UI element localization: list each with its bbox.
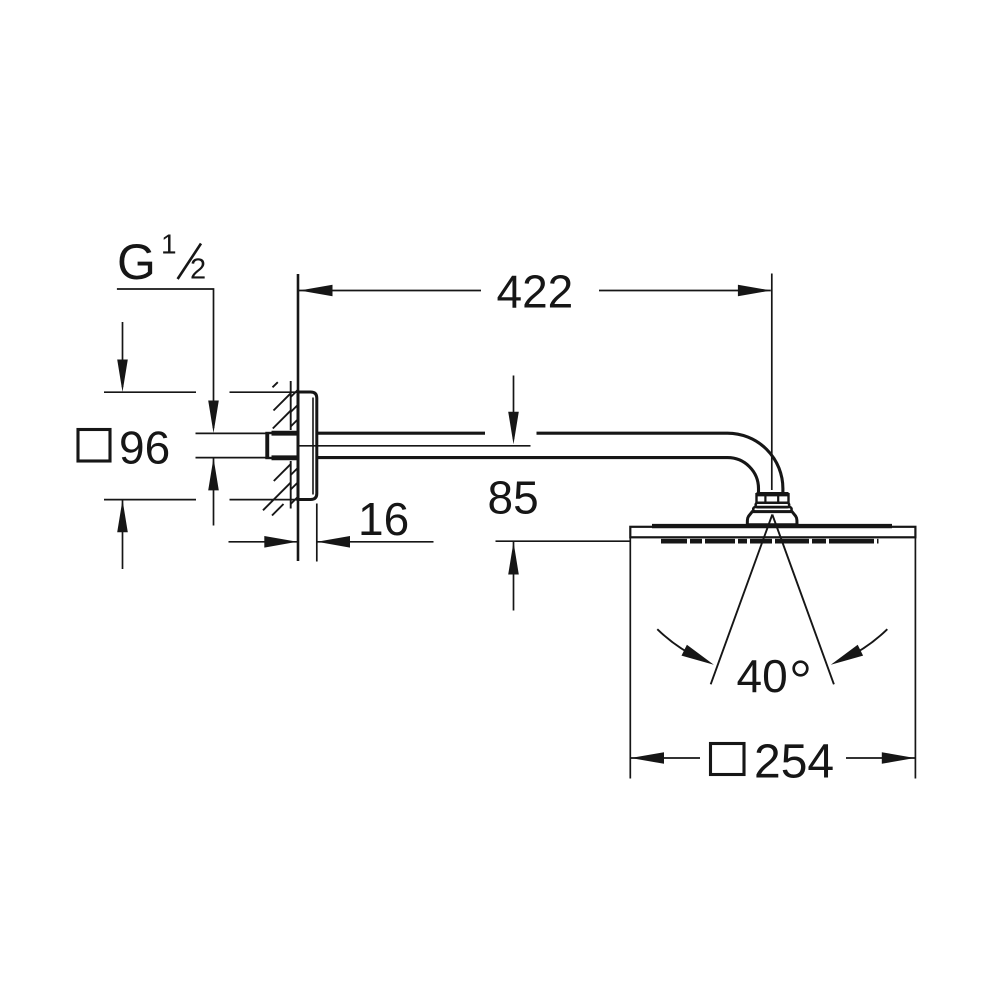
shower head plate outline — [630, 527, 915, 538]
connection nut top edge — [757, 492, 789, 496]
square symbol of 96 label — [78, 430, 110, 462]
reference line 96 top (flange top) — [104, 391, 196, 393]
svg-text:96: 96 — [119, 422, 170, 474]
reference line 96 bottom (flange bottom) — [104, 499, 196, 501]
svg-text:G: G — [117, 234, 156, 290]
fraction slash of G 1/2 — [178, 244, 201, 280]
svg-text:254: 254 — [754, 736, 834, 789]
connection nut body — [757, 494, 789, 503]
40 degree cone right line — [772, 515, 834, 685]
shower arm top line (with gap at 85-dimension arrow) — [317, 432, 485, 435]
arrow down 96 — [117, 360, 128, 393]
wall hatching — [263, 381, 298, 516]
arrow down G1/2 upper — [208, 401, 219, 434]
witness line 85 (head bottom face) — [496, 540, 631, 542]
witness line G1/2 top edge of stub — [196, 432, 267, 434]
dimension 254 line — [630, 757, 700, 759]
tail line below G1/2 lower arrow — [213, 458, 215, 526]
label G 1/2 — [117, 229, 206, 291]
flange face inner line — [312, 398, 314, 495]
dimension 16 line right part — [317, 541, 434, 543]
tail line below 85 arrow — [513, 542, 515, 611]
arrow right 254 — [882, 752, 915, 764]
ball joint collar — [756, 503, 790, 507]
lower tail line 96 — [122, 500, 124, 569]
extension line 16 (flange face) — [316, 504, 318, 562]
svg-text:422: 422 — [497, 266, 574, 318]
wall flange (escutcheon) — [298, 392, 317, 500]
base ring — [753, 507, 791, 512]
40 degree cone left line — [711, 515, 773, 685]
svg-text:40: 40 — [737, 650, 788, 702]
extension line right of 422 (head centre) — [771, 274, 773, 491]
extension line 254 left — [629, 537, 631, 778]
curved arrow left of 40 — [657, 629, 700, 659]
dimension 16 line left part — [229, 541, 298, 543]
arrow down 85 — [508, 412, 519, 445]
leader line from G 1/2 label — [117, 289, 214, 428]
arrow right 422 — [738, 285, 771, 297]
dimension 96 upper tail line — [122, 322, 124, 387]
mounting cone — [747, 512, 797, 525]
arrow up G1/2 lower — [208, 458, 219, 491]
arrow left 254 — [631, 752, 664, 764]
curved arrow right of 40 — [844, 629, 887, 659]
witness line 85 (arm underside) — [298, 445, 531, 447]
wall line — [297, 274, 300, 561]
arrow right 16 — [264, 536, 297, 548]
degree symbol — [794, 662, 808, 676]
square symbol of 254 label — [711, 744, 745, 775]
dimension 85 upper line — [513, 376, 515, 440]
arrow up 85 — [508, 542, 519, 575]
shower arm bottom line — [317, 456, 728, 459]
svg-text:85: 85 — [488, 472, 539, 524]
arm bend inner arc — [728, 458, 759, 493]
arrow left 422 — [300, 285, 333, 297]
witness line G1/2 bottom edge of stub — [196, 457, 267, 459]
arrow up 96 — [117, 500, 128, 533]
extension line 254 right — [914, 537, 916, 778]
arrow left 16 — [317, 536, 350, 548]
arm bend outer arc — [728, 433, 783, 492]
spray face dashed line — [661, 539, 879, 544]
threaded stub (wall connection) — [267, 433, 299, 458]
dimension 422 line — [299, 290, 481, 292]
head top surface thick edge — [652, 524, 892, 528]
nut facet lines — [764, 494, 766, 503]
svg-text:16: 16 — [358, 493, 409, 545]
svg-text:1: 1 — [161, 229, 177, 260]
